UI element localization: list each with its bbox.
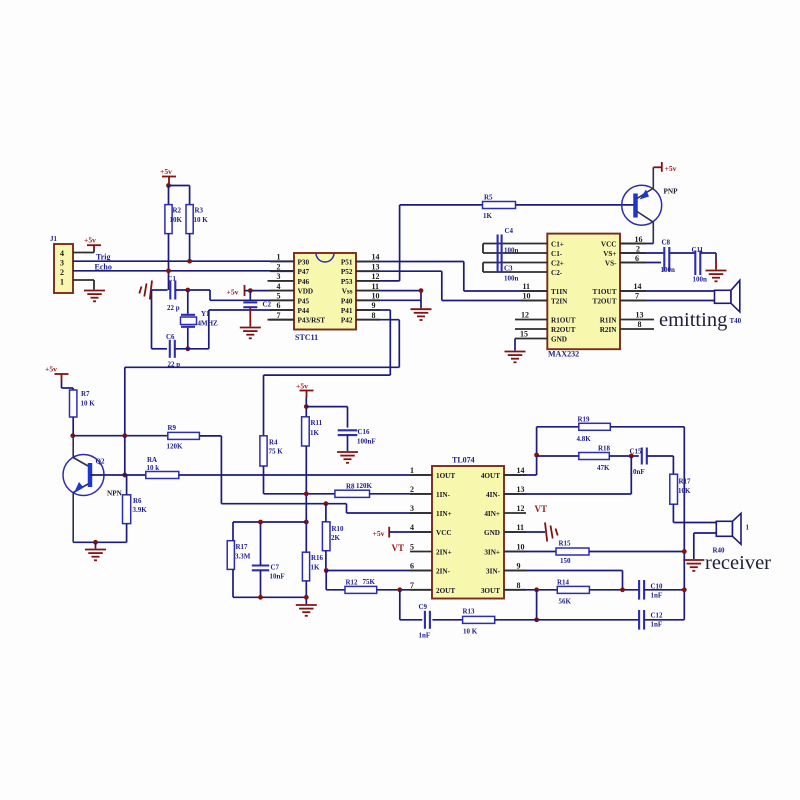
wire (to C16): [306, 406, 347, 408]
wire (Q1 collector up): [652, 167, 654, 188]
node: [682, 587, 687, 592]
wire (C11 to ground): [700, 252, 716, 254]
svg-text:P30: P30: [298, 259, 310, 267]
node (VDD/C2): [248, 288, 253, 293]
svg-text:P44: P44: [298, 307, 310, 315]
svg-text:C2: C2: [263, 300, 272, 308]
wire (T2OUT to speaker): [620, 300, 715, 302]
svg-text:10 k: 10 k: [147, 464, 160, 472]
svg-text:VCC: VCC: [601, 241, 617, 249]
svg-text:14: 14: [372, 253, 380, 262]
capacitor C11: [694, 251, 696, 276]
node (pin13 tap): [629, 454, 634, 459]
svg-text:R2IN: R2IN: [600, 326, 618, 334]
wire (R4 bottom to R8 row): [263, 466, 265, 494]
node A (XTAL1): [185, 288, 190, 293]
wire (R9 right): [199, 435, 221, 437]
svg-text:C1+: C1+: [551, 241, 564, 249]
node (R10 bottom): [324, 568, 329, 573]
power +5v (R11): [300, 390, 314, 392]
svg-text:9: 9: [517, 562, 521, 571]
svg-text:12: 12: [372, 272, 380, 281]
svg-text:Q2: Q2: [96, 458, 105, 466]
svg-text:4IN-: 4IN-: [486, 491, 501, 499]
wire (P52 to MAX232 T2IN): [356, 270, 442, 272]
svg-text:10: 10: [372, 292, 380, 301]
op-amp U3 TL074: [432, 466, 504, 599]
svg-text:C7: C7: [271, 563, 280, 571]
svg-text:+5v: +5v: [296, 382, 308, 391]
wire (P51 to MAX232 T1IN): [356, 261, 464, 263]
svg-text:R17: R17: [236, 543, 249, 551]
capacitor C12: [638, 610, 640, 630]
wire: [305, 398, 307, 417]
wire (Q2 collector): [72, 436, 74, 458]
capacitor C8: [663, 247, 665, 272]
svg-text:+5v: +5v: [84, 236, 96, 245]
wire (C16 to ground): [347, 435, 349, 451]
ground (Vss): [411, 308, 432, 310]
wire (C6 to STC11 pin6): [175, 348, 209, 350]
resistor R17 3.3M: [227, 541, 234, 570]
speaker LS2 receiver: [716, 521, 732, 536]
svg-text:3IN-: 3IN-: [486, 568, 501, 576]
wire (3OUT to R14): [504, 589, 557, 591]
resistor R15: [504, 551, 556, 553]
capacitor C15: [641, 448, 643, 465]
capacitor C2: [249, 291, 251, 300]
svg-text:8: 8: [372, 311, 376, 320]
svg-text:STC11: STC11: [295, 333, 318, 342]
resistor R3: [186, 205, 193, 234]
svg-text:120K: 120K: [356, 482, 373, 490]
capacitor C4: [483, 243, 547, 245]
svg-text:P42: P42: [341, 317, 353, 325]
svg-text:7: 7: [410, 581, 414, 590]
svg-text:4: 4: [277, 282, 281, 291]
wire (pin8 down): [536, 590, 538, 620]
svg-text:10K: 10K: [170, 216, 183, 224]
wire (R14 right): [589, 589, 639, 591]
wire (R1IN stub): [620, 319, 654, 321]
wire (VCC stub): [620, 243, 644, 245]
node: [258, 595, 263, 600]
resistor R5: [400, 204, 483, 206]
wire: [126, 475, 128, 495]
capacitor C3: [483, 262, 547, 264]
svg-text:12: 12: [517, 504, 525, 513]
svg-text:1K: 1K: [310, 429, 320, 437]
wire (3IN- to R14 node): [504, 570, 623, 572]
svg-text:C12: C12: [651, 611, 664, 619]
node (R7/R9/Q2): [70, 433, 75, 438]
capacitor C16: [338, 429, 358, 431]
svg-text:1OUT: 1OUT: [436, 472, 455, 480]
connector J1: [54, 244, 73, 293]
power +5v (J1 pin4): [87, 244, 101, 246]
svg-text:P51: P51: [341, 259, 353, 267]
svg-text:4IN+: 4IN+: [484, 510, 500, 518]
wire (to TL074 2IN-): [326, 570, 432, 572]
svg-text:10nF: 10nF: [270, 572, 285, 580]
wire (T1OUT to speaker): [620, 290, 715, 292]
power +5v (STC11 VDD): [244, 285, 246, 296]
node (R2/R3 +5v): [166, 183, 171, 188]
wire (R2IN stub): [620, 328, 654, 330]
wire (C15 to R17): [647, 455, 674, 457]
capacitor C1: [169, 281, 171, 300]
svg-text:12: 12: [521, 311, 529, 320]
svg-text:1: 1: [746, 524, 750, 532]
svg-text:1nF: 1nF: [651, 591, 663, 599]
svg-text:VDD: VDD: [298, 288, 314, 296]
svg-text:1nF: 1nF: [419, 631, 431, 639]
svg-text:R5: R5: [484, 193, 493, 201]
wire (R9 net to TL074 1IN+): [221, 503, 346, 505]
wire (R3 to Trig): [189, 234, 191, 262]
node (+5v/C16): [304, 404, 309, 409]
svg-text:T40: T40: [730, 317, 742, 325]
wire: [61, 381, 63, 388]
svg-text:2IN+: 2IN+: [436, 549, 452, 557]
ground (C11): [706, 270, 727, 272]
svg-text:R14: R14: [557, 579, 570, 587]
resistor R18: [537, 455, 579, 457]
wire Trig: [73, 260, 294, 262]
wire (Q2 emitter): [72, 493, 74, 543]
svg-text:RA: RA: [147, 456, 157, 464]
svg-text:C15: C15: [630, 448, 643, 456]
svg-text:1: 1: [277, 253, 281, 262]
svg-text:2OUT: 2OUT: [436, 587, 455, 595]
svg-text:P53: P53: [341, 278, 353, 286]
svg-text:3.3M: 3.3M: [235, 552, 251, 560]
wire (to R12): [325, 571, 327, 590]
C4/C3 plates: [497, 235, 499, 273]
svg-text:P47: P47: [298, 268, 310, 276]
svg-text:11: 11: [517, 523, 525, 532]
transistor Q1 PNP: [622, 185, 662, 225]
node: [682, 549, 687, 554]
resistor R16: [302, 552, 309, 581]
wire (receiver to ground): [694, 532, 717, 534]
svg-text:C1: C1: [168, 275, 177, 283]
svg-text:T1IN: T1IN: [551, 288, 568, 296]
capacitor C6: [169, 340, 171, 358]
svg-text:2K: 2K: [331, 534, 341, 542]
svg-text:15: 15: [520, 330, 528, 339]
svg-text:5: 5: [410, 543, 414, 552]
wire: [152, 289, 168, 291]
svg-text:P45: P45: [298, 297, 310, 305]
svg-text:T1OUT: T1OUT: [593, 288, 617, 296]
wire (C7/R17 top rail): [233, 521, 306, 523]
wire: [175, 289, 210, 291]
wire (RA to TL074 1OUT): [179, 474, 432, 476]
wire: [669, 252, 695, 254]
svg-text:VCC: VCC: [436, 529, 452, 537]
svg-text:C3: C3: [504, 265, 513, 273]
svg-text:100n: 100n: [693, 276, 708, 284]
wire: [168, 186, 170, 205]
wire (VS- stub): [620, 262, 661, 264]
svg-text:2: 2: [636, 244, 640, 253]
wire (J1 pin1 to ground): [73, 279, 94, 281]
capacitor C7: [252, 564, 269, 566]
wire (Q1 emitter to MAX232 VCC): [652, 222, 654, 244]
wire: [389, 531, 432, 533]
svg-text:10nF: 10nF: [630, 468, 645, 476]
svg-text:C6: C6: [166, 333, 175, 341]
svg-text:1: 1: [410, 466, 414, 475]
resistor R17 10K: [670, 474, 678, 504]
resistor R2: [165, 205, 172, 234]
wire (to STC11 pin5): [209, 290, 211, 300]
svg-text:10 K: 10 K: [463, 627, 478, 635]
svg-text:+5v: +5v: [373, 529, 385, 538]
op-amp U1 STC11 MCU: [294, 253, 356, 330]
svg-text:GND: GND: [484, 529, 500, 537]
svg-text:Vss: Vss: [342, 288, 353, 296]
svg-text:T2IN: T2IN: [551, 298, 568, 306]
svg-text:R1OUT: R1OUT: [551, 317, 576, 325]
svg-text:2: 2: [410, 485, 414, 494]
svg-text:8: 8: [638, 320, 642, 329]
wire (R13 right): [495, 619, 639, 621]
svg-text:47K: 47K: [597, 464, 610, 472]
ground (C2): [240, 327, 261, 329]
svg-text:75 K: 75 K: [269, 448, 284, 456]
svg-text:P46: P46: [298, 278, 310, 286]
svg-text:R19: R19: [578, 416, 591, 424]
svg-text:T2OUT: T2OUT: [593, 298, 617, 306]
resistor R4: [260, 436, 267, 466]
wire (R1OUT stub): [515, 319, 547, 321]
node: [93, 540, 98, 545]
wire (R2 to Echo and C1): [168, 234, 170, 290]
svg-text:16: 16: [635, 235, 643, 244]
wire (4OUT feedback): [504, 474, 537, 476]
resistor R7: [70, 390, 77, 417]
svg-text:10 K: 10 K: [81, 400, 96, 408]
svg-text:10: 10: [523, 292, 531, 301]
svg-text:R17: R17: [679, 478, 692, 486]
svg-text:C2+: C2+: [551, 260, 564, 268]
earth ground (C1): [150, 281, 152, 300]
node B (XTAL2): [185, 346, 190, 351]
svg-text:4MHZ: 4MHZ: [198, 320, 219, 328]
node: [620, 587, 625, 592]
power +5v (R2/R3): [162, 176, 176, 178]
svg-text:3OUT: 3OUT: [481, 587, 500, 595]
svg-text:4: 4: [410, 523, 414, 532]
resistor R10: [322, 522, 330, 551]
svg-text:7: 7: [277, 311, 281, 320]
svg-text:100nF: 100nF: [357, 438, 376, 446]
ground (C16): [337, 451, 358, 453]
svg-text:R3: R3: [195, 207, 204, 215]
node: [534, 453, 539, 458]
svg-text:6: 6: [410, 562, 414, 571]
svg-text:22 p: 22 p: [167, 304, 180, 312]
node: [258, 520, 263, 525]
svg-text:P41: P41: [341, 307, 353, 315]
op-amp U2 MAX232: [547, 234, 620, 350]
ground (R16): [296, 604, 317, 606]
svg-text:1K: 1K: [311, 563, 321, 571]
svg-text:C2-: C2-: [551, 269, 563, 277]
wire (R5 to Q1 base): [516, 204, 634, 206]
svg-text:2: 2: [60, 268, 64, 277]
node (2OUT): [397, 587, 402, 592]
svg-text:R12: R12: [346, 579, 359, 587]
wire (C7/R17 bottom rail): [232, 569, 234, 597]
power +5v (TL074 VCC): [388, 527, 390, 538]
ground (MAX232 GND): [505, 351, 526, 353]
svg-text:13: 13: [636, 311, 644, 320]
node (R8 tap): [304, 491, 309, 496]
svg-text:+5v: +5v: [160, 167, 172, 176]
svg-text:MAX232: MAX232: [548, 350, 579, 359]
svg-text:GND: GND: [551, 336, 567, 344]
wire: [325, 504, 327, 522]
wire (GND pin15): [515, 338, 547, 340]
svg-text:11: 11: [372, 282, 380, 291]
svg-text:C1-: C1-: [551, 250, 563, 258]
wire: [151, 290, 153, 349]
resistor R8: [335, 490, 370, 497]
svg-text:R7: R7: [81, 390, 90, 398]
svg-text:6: 6: [277, 301, 281, 310]
svg-text:VS+: VS+: [603, 250, 616, 258]
svg-text:7: 7: [635, 292, 639, 301]
svg-text:TL074: TL074: [452, 456, 475, 465]
resistor R11: [302, 417, 310, 446]
svg-text:1IN-: 1IN-: [436, 491, 451, 499]
svg-text:5: 5: [277, 292, 281, 301]
wire Echo: [73, 270, 294, 272]
ground (Q2 emitter): [85, 549, 106, 551]
svg-text:P52: P52: [341, 268, 353, 276]
svg-text:2: 2: [277, 262, 281, 271]
capacitor C10: [638, 580, 640, 600]
svg-text:3IN+: 3IN+: [484, 549, 500, 557]
svg-text:R15: R15: [559, 540, 572, 548]
svg-text:100n: 100n: [504, 275, 519, 283]
svg-text:P40: P40: [341, 297, 353, 305]
U3 pin stubs: [410, 474, 432, 476]
node: [419, 288, 424, 293]
svg-text:VT: VT: [535, 504, 548, 514]
svg-text:VT: VT: [392, 543, 405, 553]
svg-text:11: 11: [523, 282, 531, 291]
wire (R15 right): [589, 551, 684, 553]
node: [534, 617, 539, 622]
svg-text:receiver: receiver: [705, 552, 771, 574]
svg-text:10: 10: [517, 543, 525, 552]
speaker LS1 emitting: [715, 290, 732, 303]
svg-text:+5v: +5v: [665, 164, 677, 173]
resistor R12: [345, 586, 377, 593]
svg-text:3: 3: [60, 259, 64, 268]
wire: [245, 290, 295, 292]
wire (R19 right): [610, 426, 684, 428]
svg-text:8: 8: [517, 581, 521, 590]
svg-text:120K: 120K: [167, 442, 184, 450]
svg-text:R9: R9: [168, 424, 177, 432]
svg-text:C8: C8: [662, 239, 671, 247]
wire (R11 bottom rail): [305, 446, 307, 552]
svg-text:14: 14: [634, 282, 642, 291]
node (R10 top): [324, 501, 329, 506]
wire (R2OUT stub): [515, 328, 547, 330]
svg-text:J1: J1: [50, 235, 58, 243]
power +5v (R7): [55, 373, 69, 375]
svg-text:Echo: Echo: [95, 262, 112, 271]
node (C7 rail): [304, 520, 309, 525]
wire (P42 net down to base): [124, 436, 126, 475]
svg-text:R13: R13: [463, 608, 476, 616]
wire (R7 to node): [72, 417, 74, 436]
wire (Q2 base row): [90, 474, 146, 476]
wire (C12 right): [644, 619, 684, 621]
svg-text:PNP: PNP: [664, 188, 679, 196]
resistor R9: [168, 432, 200, 439]
svg-text:4: 4: [60, 249, 64, 258]
wire (C2 to ground): [249, 307, 251, 326]
svg-text:10K: 10K: [678, 487, 691, 495]
node: [122, 433, 127, 438]
svg-text:75K: 75K: [363, 578, 376, 586]
wire (R16 bottom): [305, 581, 307, 604]
svg-text:14: 14: [517, 466, 525, 475]
resistor R13: [463, 616, 495, 623]
wire (node to R9): [73, 435, 168, 437]
crystal Y1: [187, 290, 189, 314]
U1 pin stubs: [268, 280, 295, 282]
svg-text:1: 1: [60, 278, 64, 287]
svg-text:13: 13: [517, 485, 525, 494]
svg-text:56K: 56K: [559, 597, 572, 605]
node (R3/Trig): [187, 259, 192, 264]
node (Q2 base): [122, 473, 127, 478]
svg-text:9: 9: [372, 301, 376, 310]
svg-text:C16: C16: [358, 428, 371, 436]
svg-text:+5v: +5v: [227, 288, 239, 297]
resistor RA: [146, 472, 179, 479]
svg-text:1nF: 1nF: [651, 620, 663, 628]
svg-text:P43/RST: P43/RST: [298, 317, 326, 325]
svg-text:R6: R6: [133, 497, 142, 505]
wire (VS+ to C8/C11): [620, 252, 664, 254]
wire (P41 down): [356, 309, 390, 311]
wire (2OUT down to C9): [399, 590, 401, 620]
svg-text:13: 13: [372, 262, 380, 271]
svg-text:6: 6: [635, 254, 639, 263]
svg-text:C4: C4: [505, 227, 514, 235]
svg-text:3: 3: [410, 504, 414, 513]
resistor R6: [123, 495, 131, 524]
svg-text:Trig: Trig: [96, 253, 111, 262]
svg-text:R4: R4: [269, 438, 278, 446]
wire (R18 to C15): [609, 455, 639, 457]
wire (Vss to ground): [356, 290, 421, 292]
svg-text:+5v: +5v: [45, 365, 57, 374]
U2 pin stubs: [521, 290, 547, 292]
svg-text:3: 3: [277, 272, 281, 281]
ground (J1): [84, 290, 105, 292]
wire (R17 to speaker): [672, 504, 674, 522]
